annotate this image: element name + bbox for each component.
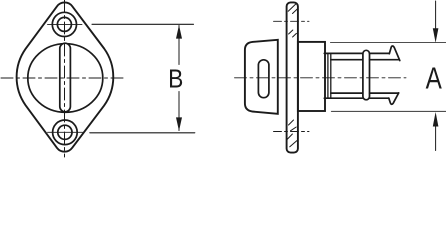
plate section hatching bbox=[287, 4, 297, 147]
top screw hole inner bbox=[57, 17, 71, 31]
front view vertical centerline bbox=[64, 0, 66, 157]
snap arm outer lines bbox=[324, 53, 389, 98]
dimension A bottom shaft bbox=[435, 127, 437, 151]
o-ring band bbox=[363, 50, 370, 100]
central boss circle (front view) bbox=[28, 44, 103, 113]
side view bottom hole centerline bbox=[274, 131, 310, 133]
key slot (front view) bbox=[60, 43, 71, 112]
dimension A top arrow bbox=[433, 28, 439, 43]
dimension B top arrow bbox=[176, 25, 182, 39]
dimension B bottom arrow bbox=[176, 117, 182, 131]
bottom barb bbox=[389, 93, 399, 104]
knob outline (side view) bbox=[245, 40, 278, 114]
dimension A top shaft bbox=[435, 1, 437, 29]
collar disc (side view) bbox=[298, 42, 325, 111]
dimension B top extension line bbox=[92, 23, 194, 25]
side view main centerline bbox=[235, 77, 407, 79]
bottom screw hole inner bbox=[58, 125, 72, 139]
top screw hole outer bbox=[52, 12, 76, 36]
top barb bbox=[389, 46, 400, 61]
dimension A bottom arrow bbox=[433, 112, 439, 127]
dimension B line lower segment bbox=[178, 92, 180, 131]
svg-text:A: A bbox=[426, 61, 442, 96]
inner stem lines bbox=[331, 60, 399, 93]
dimension A top extension line bbox=[331, 42, 446, 44]
flange outline (front view) bbox=[17, 2, 114, 151]
top screw hole crosshair bbox=[48, 23, 83, 25]
flange plate (side view, sectioned) bbox=[287, 2, 298, 152]
knob slot bbox=[258, 60, 269, 98]
bottom screw hole outer bbox=[53, 120, 78, 145]
svg-text:B: B bbox=[168, 63, 183, 93]
dimension B bottom extension line bbox=[90, 132, 195, 134]
washer lines behind collar bbox=[328, 54, 331, 99]
dimension A bottom extension line bbox=[331, 110, 446, 112]
bottom screw hole crosshair bbox=[48, 131, 83, 133]
front view horizontal centerline bbox=[1, 77, 125, 79]
dimension B line upper segment bbox=[178, 26, 180, 65]
side view top hole centerline bbox=[274, 20, 310, 22]
